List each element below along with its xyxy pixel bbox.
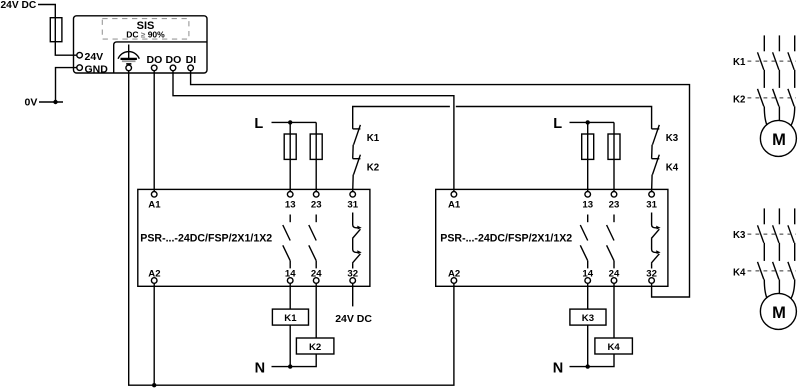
- svg-text:K1: K1: [733, 57, 746, 68]
- terminal A2 right PSR: [451, 278, 457, 284]
- fuse F2: [284, 134, 296, 159]
- terminal 24 right PSR: [611, 278, 617, 284]
- contact K1 NC (control circuit): [353, 125, 361, 159]
- svg-text:M: M: [772, 304, 786, 322]
- terminal DO2 of SIS: [170, 65, 176, 71]
- wire A2 left PSR to bottom rail: [153, 283, 155, 385]
- terminal 32 right PSR: [649, 278, 655, 284]
- contact K4 NC (control circuit): [652, 155, 660, 192]
- svg-text:K4: K4: [607, 342, 620, 353]
- junction N right: [586, 364, 590, 368]
- junction L left: [288, 120, 292, 124]
- wire coil K1 to N junction: [289, 325, 291, 367]
- svg-text:24: 24: [609, 269, 620, 280]
- wire DI feedback loop to terminal 32 of right PSR: [191, 71, 690, 297]
- wire 14 right to coil K3 and N: [587, 283, 589, 309]
- terminal earth of SIS: [126, 65, 132, 71]
- svg-text:DO: DO: [166, 54, 182, 66]
- safety relay U2 PSR box (right): [436, 189, 668, 286]
- svg-text:K4: K4: [666, 162, 679, 173]
- contactor K3 main contacts: [758, 225, 795, 243]
- wire L feed left: [272, 121, 317, 123]
- internal guided NC contact 31-32 right PSR: [651, 213, 660, 269]
- svg-text:N: N: [255, 361, 265, 377]
- wire N rail left: [272, 354, 317, 367]
- contact K3 NC (control circuit): [652, 125, 660, 159]
- svg-text:DC ≥ 90%: DC ≥ 90%: [126, 30, 165, 40]
- fuse F1: [50, 18, 62, 42]
- noiseless earth symbol inside SIS: [118, 45, 139, 64]
- svg-text:A2: A2: [148, 269, 160, 280]
- svg-text:14: 14: [285, 269, 296, 280]
- svg-text:24V DC: 24V DC: [335, 313, 372, 325]
- svg-text:L: L: [553, 116, 562, 132]
- wire L to fuse to terminal 13 right: [587, 122, 589, 191]
- terminal 24V of SIS: [77, 52, 83, 58]
- svg-text:DO: DO: [147, 54, 163, 66]
- coil K1: [272, 309, 308, 325]
- svg-text:DI: DI: [186, 54, 197, 66]
- svg-text:K2: K2: [309, 342, 321, 353]
- terminal 24 left PSR: [313, 278, 319, 284]
- phase wires into motor M1: [764, 106, 794, 127]
- phase wires middle (branch 1): [764, 70, 794, 88]
- internal guided NC contact 31-32 left PSR: [352, 213, 361, 269]
- svg-text:K3: K3: [733, 230, 746, 241]
- internal NO contact 13-14 left PSR: [283, 215, 290, 269]
- contactor K4 main contacts: [758, 262, 795, 280]
- internal NO contact 23-24 left PSR: [309, 215, 316, 269]
- svg-text:K1: K1: [284, 313, 297, 324]
- phase wires into motor M2: [764, 279, 794, 300]
- svg-text:31: 31: [646, 200, 657, 211]
- terminal 13 left PSR: [287, 192, 293, 198]
- wire GND to 0V rail: [56, 68, 78, 102]
- terminal 14 right PSR: [585, 278, 591, 284]
- mechanical link K4: [748, 270, 797, 272]
- wire feedback chain top rail (left part): [353, 107, 450, 129]
- internal NO contact 23-24 right PSR: [607, 215, 614, 269]
- SIS dashed label frame: [102, 19, 189, 39]
- motor branch 1: phase wires top: [764, 35, 794, 51]
- wire DO1 to A1 of left PSR: [153, 71, 155, 192]
- svg-text:24: 24: [311, 269, 322, 280]
- wire N rail right: [570, 354, 615, 367]
- svg-text:13: 13: [285, 200, 296, 211]
- motor M1: [760, 120, 796, 156]
- mechanical link K2: [748, 97, 797, 99]
- safety relay U1 PSR box (left): [138, 189, 370, 286]
- terminal A1 right PSR: [451, 192, 457, 198]
- wire DO2 to A1 of right PSR: [173, 71, 454, 192]
- svg-text:M: M: [772, 131, 786, 149]
- svg-text:13: 13: [582, 200, 593, 211]
- motor branch 2: phase wires top: [764, 208, 794, 224]
- svg-text:K3: K3: [666, 133, 679, 144]
- svg-text:N: N: [553, 361, 563, 377]
- terminal 23 left PSR: [313, 192, 319, 198]
- mechanical link K1: [748, 60, 797, 62]
- junction N left: [288, 364, 292, 368]
- svg-text:K3: K3: [582, 313, 594, 324]
- wire L to fuse to terminal 13 left: [289, 122, 291, 191]
- wire feedback chain top rail (right part, after crossing gap): [456, 107, 652, 129]
- terminal 32 left PSR: [350, 278, 356, 284]
- wire L feed right: [570, 121, 615, 123]
- contactor K1 main contacts: [758, 52, 795, 70]
- svg-text:A1: A1: [148, 200, 161, 211]
- wire coil K3 to N junction: [587, 325, 589, 367]
- terminal 14 left PSR: [287, 278, 293, 284]
- fuse F4: [582, 134, 594, 159]
- internal NO contact 13-14 right PSR: [580, 215, 587, 269]
- wire L to fuse to terminal 23 right: [613, 122, 615, 191]
- svg-text:24V DC: 24V DC: [1, 0, 37, 11]
- coil K2: [296, 338, 334, 354]
- svg-text:PSR-...-24DC/FSP/2X1/1X2: PSR-...-24DC/FSP/2X1/1X2: [140, 232, 272, 244]
- fuse F3: [310, 134, 322, 159]
- terminal A2 left PSR: [151, 278, 157, 284]
- junction bottom rail / A2 left: [152, 383, 156, 387]
- phase wires middle (branch 2): [764, 243, 794, 261]
- terminal 31 left PSR: [350, 192, 356, 198]
- contactor K2 main contacts: [758, 89, 795, 107]
- coil K4: [595, 338, 633, 354]
- svg-text:23: 23: [609, 200, 620, 211]
- wire 24 right to coil K4: [613, 283, 615, 338]
- mechanical link K3: [748, 233, 797, 235]
- svg-text:31: 31: [347, 200, 358, 211]
- motor M2: [760, 293, 796, 329]
- contact K2 NC (control circuit): [353, 155, 361, 192]
- wire 24VDC supply to fuse F1 and 24V terminal: [38, 5, 77, 56]
- wire 0V stub: [39, 101, 63, 103]
- terminal 13 right PSR: [585, 192, 591, 198]
- svg-text:K1: K1: [367, 133, 380, 144]
- junction L right: [586, 120, 590, 124]
- terminal DO1 of SIS: [151, 65, 157, 71]
- wire 32 left to 24VDC source: [352, 283, 354, 306]
- svg-text:A1: A1: [448, 200, 461, 211]
- SIS inner compartment: [114, 42, 207, 73]
- svg-text:K2: K2: [733, 94, 745, 105]
- svg-text:0V: 0V: [25, 97, 38, 109]
- svg-text:A2: A2: [448, 269, 460, 280]
- wire L to fuse to terminal 23 left: [315, 122, 317, 191]
- terminal 23 right PSR: [611, 192, 617, 198]
- svg-text:24V: 24V: [85, 51, 104, 63]
- coil K3: [570, 309, 606, 325]
- wire earth lead down to bottom rail and up to A2 of right PSR: [129, 71, 454, 386]
- fuse F5: [608, 134, 620, 159]
- terminal DI of SIS: [188, 65, 194, 71]
- svg-text:14: 14: [582, 269, 593, 280]
- terminal A1 left PSR: [151, 192, 157, 198]
- svg-text:PSR-...-24DC/FSP/2X1/1X2: PSR-...-24DC/FSP/2X1/1X2: [440, 232, 572, 244]
- svg-text:32: 32: [347, 269, 358, 280]
- wire 24 left to coil K2: [315, 283, 317, 338]
- terminal 31 right PSR: [649, 192, 655, 198]
- junction 0V/GND: [53, 100, 57, 104]
- terminal GND of SIS: [77, 65, 83, 71]
- power supply unit SIS box: [74, 16, 208, 73]
- svg-text:32: 32: [646, 269, 657, 280]
- svg-text:K4: K4: [733, 267, 746, 278]
- wire 14 left to coil K1 and N: [289, 283, 291, 309]
- svg-text:L: L: [254, 116, 263, 132]
- svg-text:GND: GND: [85, 63, 109, 75]
- svg-text:23: 23: [311, 200, 322, 211]
- svg-text:K2: K2: [367, 162, 379, 173]
